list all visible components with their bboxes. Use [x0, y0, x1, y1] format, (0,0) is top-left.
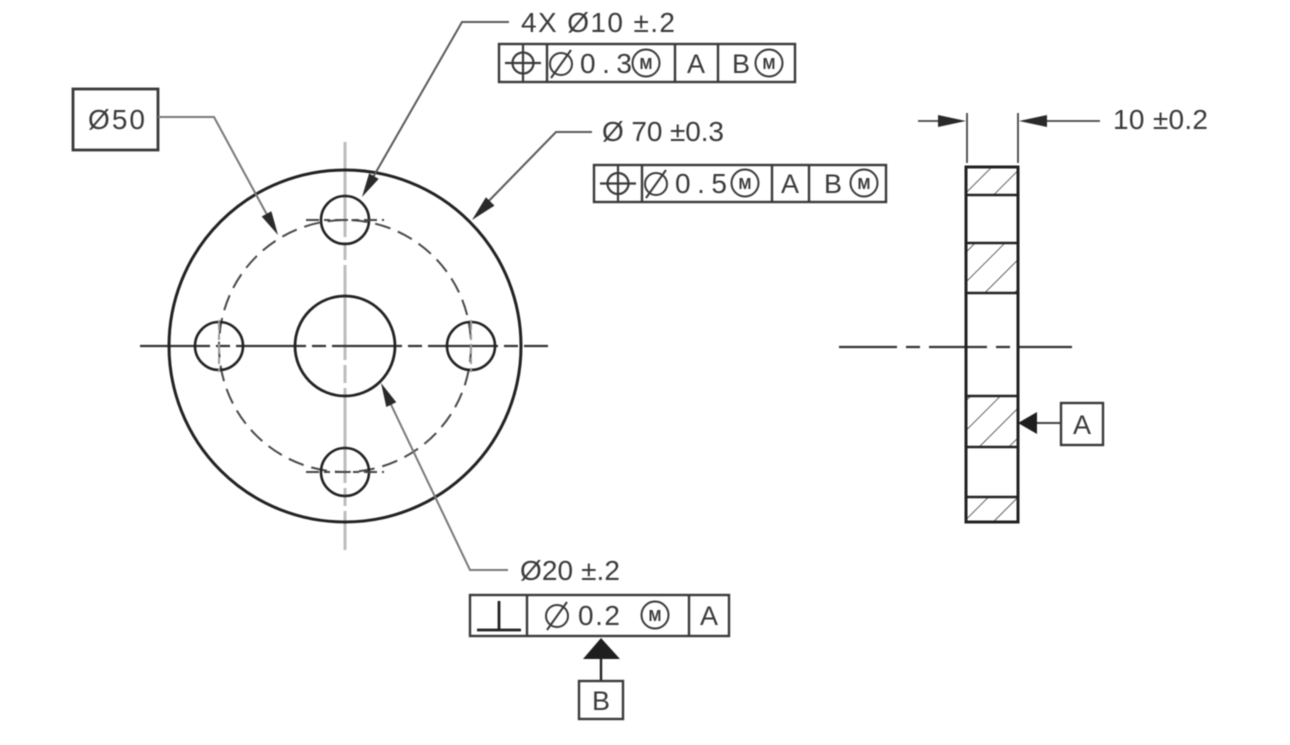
hatch band 1	[966, 167, 1018, 195]
Ø20 leader arrowhead	[381, 383, 396, 407]
FCF3 perpendicularity symbol	[477, 601, 521, 630]
FCF3 diameter symbol	[546, 602, 568, 630]
bottom hole center tick	[306, 471, 384, 473]
svg-text:A: A	[781, 169, 799, 199]
FCF1 datum B M modifier	[756, 50, 783, 77]
svg-text:0.5: 0.5	[675, 168, 727, 199]
FCF3 M modifier	[642, 602, 669, 629]
Ø50 box	[73, 89, 158, 150]
central hole Ø20	[295, 296, 395, 396]
left extension line	[966, 113, 968, 163]
FCF2 M modifier	[732, 170, 759, 197]
svg-text:0.3: 0.3	[580, 48, 632, 79]
svg-text:M: M	[649, 608, 662, 625]
FCF2 datum B M modifier	[851, 170, 878, 197]
svg-text:A: A	[700, 601, 718, 631]
svg-text:B: B	[592, 686, 610, 716]
svg-text:4X Ø10 ±.2: 4X Ø10 ±.2	[521, 7, 675, 38]
horizontal centerline	[140, 345, 548, 347]
svg-text:M: M	[858, 176, 871, 193]
datum A box	[1061, 403, 1103, 445]
left dimension line	[918, 120, 942, 122]
svg-text:M: M	[640, 56, 653, 73]
FCF1 M modifier	[633, 50, 660, 77]
Ø20 leader	[385, 392, 508, 570]
Ø50 leader	[158, 117, 272, 224]
Ø70 leader	[481, 132, 592, 209]
hatch band 3	[966, 396, 1018, 447]
left hole center tick	[218, 320, 220, 372]
svg-text:B: B	[824, 169, 842, 199]
FCF1 position symbol	[505, 45, 541, 81]
FCF2 position symbol	[600, 166, 636, 202]
svg-text:A: A	[1073, 410, 1091, 440]
hole bottom Ø10	[321, 448, 369, 496]
section divider lines	[966, 195, 1018, 497]
4X leader arrowhead	[362, 173, 379, 197]
svg-text:Ø50: Ø50	[88, 104, 145, 135]
4X leader	[368, 22, 509, 186]
left dimension arrowhead	[938, 115, 966, 127]
top hole center tick	[306, 219, 384, 221]
svg-text:10 ±0.2: 10 ±0.2	[1113, 104, 1208, 135]
datum A triangle	[1018, 412, 1037, 434]
datum B triangle	[583, 638, 620, 659]
datum A stem	[1037, 422, 1061, 424]
svg-text:B: B	[732, 49, 750, 79]
hole top Ø10	[321, 196, 369, 244]
svg-text:0.2: 0.2	[578, 600, 620, 631]
Ø70 leader arrowhead	[472, 197, 495, 220]
svg-text:Ø 70 ±0.3: Ø 70 ±0.3	[602, 116, 724, 147]
FCF1 diameter symbol	[550, 50, 572, 78]
side view outline	[966, 167, 1018, 522]
right dimension line	[1043, 120, 1100, 122]
outer circle Ø70	[169, 170, 521, 522]
right extension line	[1017, 113, 1019, 163]
FCF1 frame	[499, 44, 795, 82]
hole right Ø10	[447, 322, 495, 370]
Ø50 leader arrowhead	[262, 211, 278, 235]
hatch band 4	[966, 497, 1018, 522]
FCF2 diameter symbol	[645, 170, 667, 198]
datum B stem	[600, 659, 602, 681]
right dimension arrowhead	[1019, 115, 1047, 127]
vertical centerline	[344, 142, 347, 550]
svg-text:M: M	[739, 176, 752, 193]
hatch band 2	[966, 243, 1018, 293]
svg-text:A: A	[687, 49, 705, 79]
right hole center tick	[470, 320, 472, 372]
hole left Ø10	[195, 322, 243, 370]
svg-text:Ø20 ±.2: Ø20 ±.2	[520, 555, 620, 586]
bolt circle Ø50 (dashed)	[219, 220, 471, 472]
svg-text:M: M	[763, 56, 776, 73]
FCF3 frame	[470, 595, 729, 636]
FCF2 frame	[594, 165, 886, 202]
side centerline	[839, 346, 1072, 348]
datum B box	[579, 681, 623, 719]
